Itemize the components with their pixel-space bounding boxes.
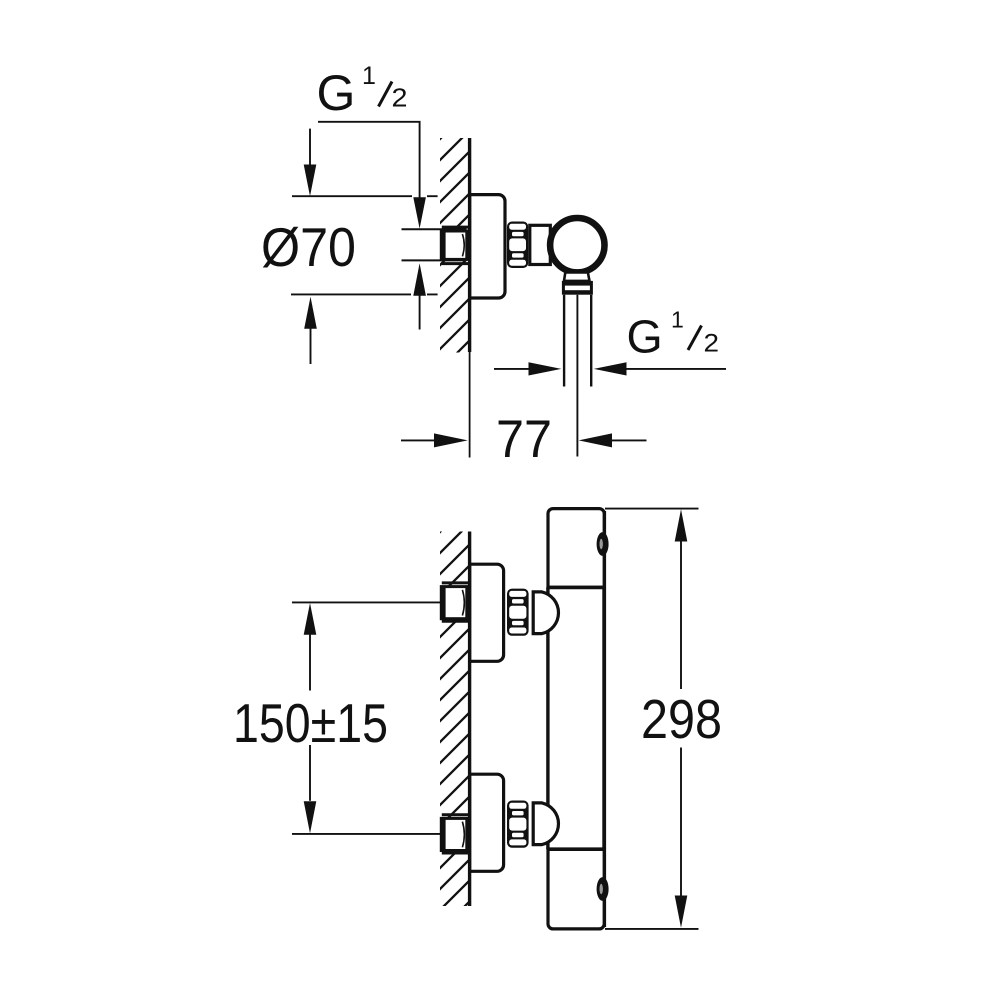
union hex nut (top view) (507, 222, 528, 269)
wall hatching (bottom view) (438, 501, 471, 975)
pipe centerline (576, 295, 578, 457)
supply pipe lines behind wall (top view) (402, 229, 467, 260)
thermostat body right edge (602, 511, 606, 927)
union hex nut lower (bottom view) (507, 801, 529, 848)
square wall fitting lower (bottom view) (441, 818, 467, 850)
svg-text:Ø70: Ø70 (261, 216, 356, 278)
thermostat body top cap (548, 509, 604, 588)
svg-text:G: G (627, 311, 663, 363)
valve body (top view) (530, 225, 551, 264)
Ø70 bottom extension (291, 293, 438, 295)
svg-text:1: 1 (671, 307, 684, 333)
escutcheon flange (top view) (470, 195, 505, 298)
dimension line Ø70 top extension (292, 195, 438, 197)
mounting screw upper (edge-on) (597, 532, 609, 556)
G 1/2 (top) leader line (318, 122, 420, 199)
dimension G 1/2 (top) label (317, 62, 408, 121)
extension line 150 top (292, 601, 441, 603)
dimension G 1/2 (outlet) label (627, 307, 720, 363)
inlet dome upper (533, 592, 558, 634)
svg-text:2: 2 (704, 330, 720, 358)
G 1/2 (outlet) arrows (494, 368, 530, 370)
escutcheon flange upper (bottom view) (470, 564, 504, 661)
thermostat body shaft left edge (546, 587, 549, 849)
wall hatching (top view) (438, 108, 471, 414)
svg-text:77: 77 (496, 410, 552, 469)
wall union bars upper (bottom view) (442, 583, 468, 621)
G 1/2 (top) arrow up (413, 263, 426, 296)
square wall fitting upper (bottom view) (441, 587, 467, 619)
outlet neck (top view) (564, 273, 590, 281)
dimension 150±15 (304, 603, 317, 635)
shower outlet ball (top view) (550, 218, 604, 272)
Ø70 bottom arrow (304, 297, 317, 329)
svg-text:2: 2 (392, 83, 408, 113)
union hex nut upper (bottom view) (507, 589, 529, 636)
svg-text:150±15: 150±15 (233, 692, 388, 754)
mounting screw lower (edge-on) (597, 877, 609, 901)
escutcheon flange lower (bottom view) (470, 774, 504, 871)
wall union bars lower (bottom view) (442, 815, 468, 853)
svg-text:G: G (317, 65, 356, 121)
svg-text:298: 298 (641, 689, 722, 750)
inlet dome lower (533, 803, 558, 845)
outlet collar (top view) (562, 281, 593, 295)
dimension 298 (605, 508, 699, 510)
wall face line (top view) (468, 138, 471, 352)
hose connection pipe (top view) (564, 295, 591, 387)
thermostat body bottom cap (548, 849, 604, 929)
G 1/2 (top) arrow down (413, 197, 426, 228)
wall face line (bottom view) (468, 532, 471, 907)
extension line 150 bottom (292, 833, 441, 835)
square wall fitting (top view) (441, 231, 467, 259)
wall union bars (top view) (442, 227, 468, 264)
Ø70 top arrow (309, 129, 311, 166)
dimension 77 (401, 439, 436, 441)
svg-text:1: 1 (362, 62, 376, 90)
